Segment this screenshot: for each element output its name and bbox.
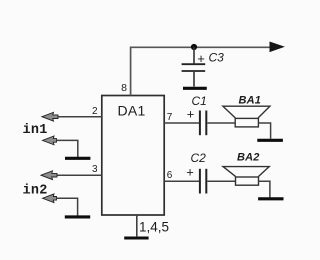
ground (BA1) — [257, 139, 283, 142]
input arrow in1 ground — [43, 136, 57, 145]
capacitor C1 — [200, 111, 206, 136]
wire pin8 to top rail — [131, 47, 271, 95]
wire C1 to BA1 — [207, 122, 235, 124]
wire pin 6 to C2 — [164, 180, 199, 182]
ground (C3) — [183, 87, 207, 90]
supply output arrow — [270, 42, 284, 52]
capacitor C2 — [200, 169, 206, 194]
ground (in1) — [65, 157, 90, 160]
ground (IC pins 1,4,5) — [124, 236, 148, 239]
svg-text:3: 3 — [92, 164, 98, 175]
svg-text:C3: C3 — [209, 51, 225, 65]
svg-text:2: 2 — [92, 106, 98, 117]
wire pin 2 — [57, 116, 102, 118]
input arrow in2 ground — [43, 194, 57, 203]
ground (in2) — [65, 215, 90, 218]
svg-text:7: 7 — [167, 112, 173, 123]
svg-text:6: 6 — [167, 170, 173, 181]
input arrow in1 signal — [42, 112, 58, 121]
svg-text:BA1: BA1 — [239, 94, 262, 106]
wire BA2 to ground — [259, 181, 270, 197]
svg-text:C1: C1 — [192, 94, 207, 108]
speaker BA2 — [223, 167, 269, 186]
capacitor C3 — [182, 47, 206, 87]
node junction dot — [191, 44, 197, 50]
ground (BA2) — [258, 197, 283, 200]
wire pins 1,4,5 to ground — [136, 215, 138, 236]
svg-text:BA2: BA2 — [237, 151, 260, 163]
speaker BA1 — [223, 106, 270, 127]
svg-text:+: + — [197, 51, 205, 66]
svg-text:C2: C2 — [191, 151, 207, 165]
svg-text:8: 8 — [121, 82, 127, 94]
input arrow in2 signal — [41, 171, 57, 180]
wire C2 to BA2 — [207, 180, 235, 182]
svg-text:+: + — [187, 106, 195, 121]
wire BA1 to ground — [258, 123, 270, 139]
wire pin 7 to C1 — [164, 122, 199, 124]
svg-text:1,4,5: 1,4,5 — [139, 219, 169, 234]
wire in2 jack to ground — [57, 198, 78, 215]
op-amp U1 (IC DA1 box) — [102, 96, 164, 216]
svg-text:in1: in1 — [23, 123, 48, 138]
svg-text:+: + — [186, 165, 194, 180]
wire pin 3 — [57, 174, 102, 176]
svg-text:in2: in2 — [23, 183, 48, 198]
wire in1 jack to ground — [57, 140, 78, 157]
svg-text:DA1: DA1 — [118, 103, 146, 119]
